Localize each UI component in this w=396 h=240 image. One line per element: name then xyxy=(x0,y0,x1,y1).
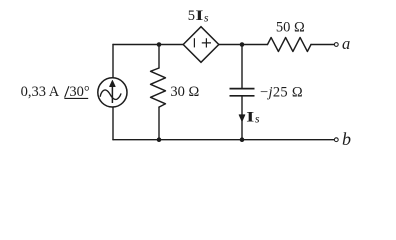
svg-text:I: I xyxy=(195,7,203,23)
svg-text:b: b xyxy=(342,129,351,149)
resistor 30ohm xyxy=(151,68,166,107)
wire 30ohm branch upper xyxy=(158,45,160,69)
label angle underline xyxy=(64,97,88,99)
node dot top 30ohm xyxy=(157,42,162,47)
wire left branch upper xyxy=(112,45,114,78)
resistor 50ohm xyxy=(268,38,312,52)
capacitor C1 top plate xyxy=(230,88,255,90)
current Is arrowhead xyxy=(239,115,245,122)
svg-text:5: 5 xyxy=(188,8,195,24)
dependent source plus sign xyxy=(202,38,211,47)
svg-text:30 Ω: 30 Ω xyxy=(170,84,199,100)
wire 30ohm branch lower xyxy=(158,107,160,140)
svg-text:s: s xyxy=(204,11,209,25)
wire left branch lower xyxy=(112,108,114,140)
wire capacitor branch upper xyxy=(241,45,243,89)
wire top left segment xyxy=(113,44,183,46)
terminal b circle xyxy=(334,138,338,142)
current source circle xyxy=(98,78,127,107)
terminal a circle xyxy=(334,43,338,47)
svg-text:a: a xyxy=(342,34,350,53)
wire bottom xyxy=(113,139,334,141)
svg-text:−j25 Ω: −j25 Ω xyxy=(260,84,303,100)
current source sine squiggle xyxy=(100,90,121,99)
node dot top capacitor xyxy=(240,42,245,47)
svg-text:50 Ω: 50 Ω xyxy=(276,20,305,36)
svg-text:I: I xyxy=(246,109,254,125)
svg-text:s: s xyxy=(255,112,260,126)
dependent source U1 diamond xyxy=(183,27,219,63)
wire resistor to terminal a xyxy=(311,44,334,46)
wire diamond to 50ohm resistor xyxy=(219,44,268,46)
label angle slash xyxy=(65,86,69,97)
current source arrow shaft xyxy=(111,86,113,104)
node dot bottom capacitor xyxy=(240,137,245,142)
capacitor C1 bottom plate xyxy=(230,95,255,97)
svg-text:30°: 30° xyxy=(69,84,90,100)
svg-text:0,33 A: 0,33 A xyxy=(21,84,60,100)
node dot bottom 30ohm xyxy=(157,137,162,142)
wire capacitor branch lower xyxy=(241,96,243,140)
current source arrowhead xyxy=(110,80,116,86)
dependent source minus bar xyxy=(193,38,195,47)
